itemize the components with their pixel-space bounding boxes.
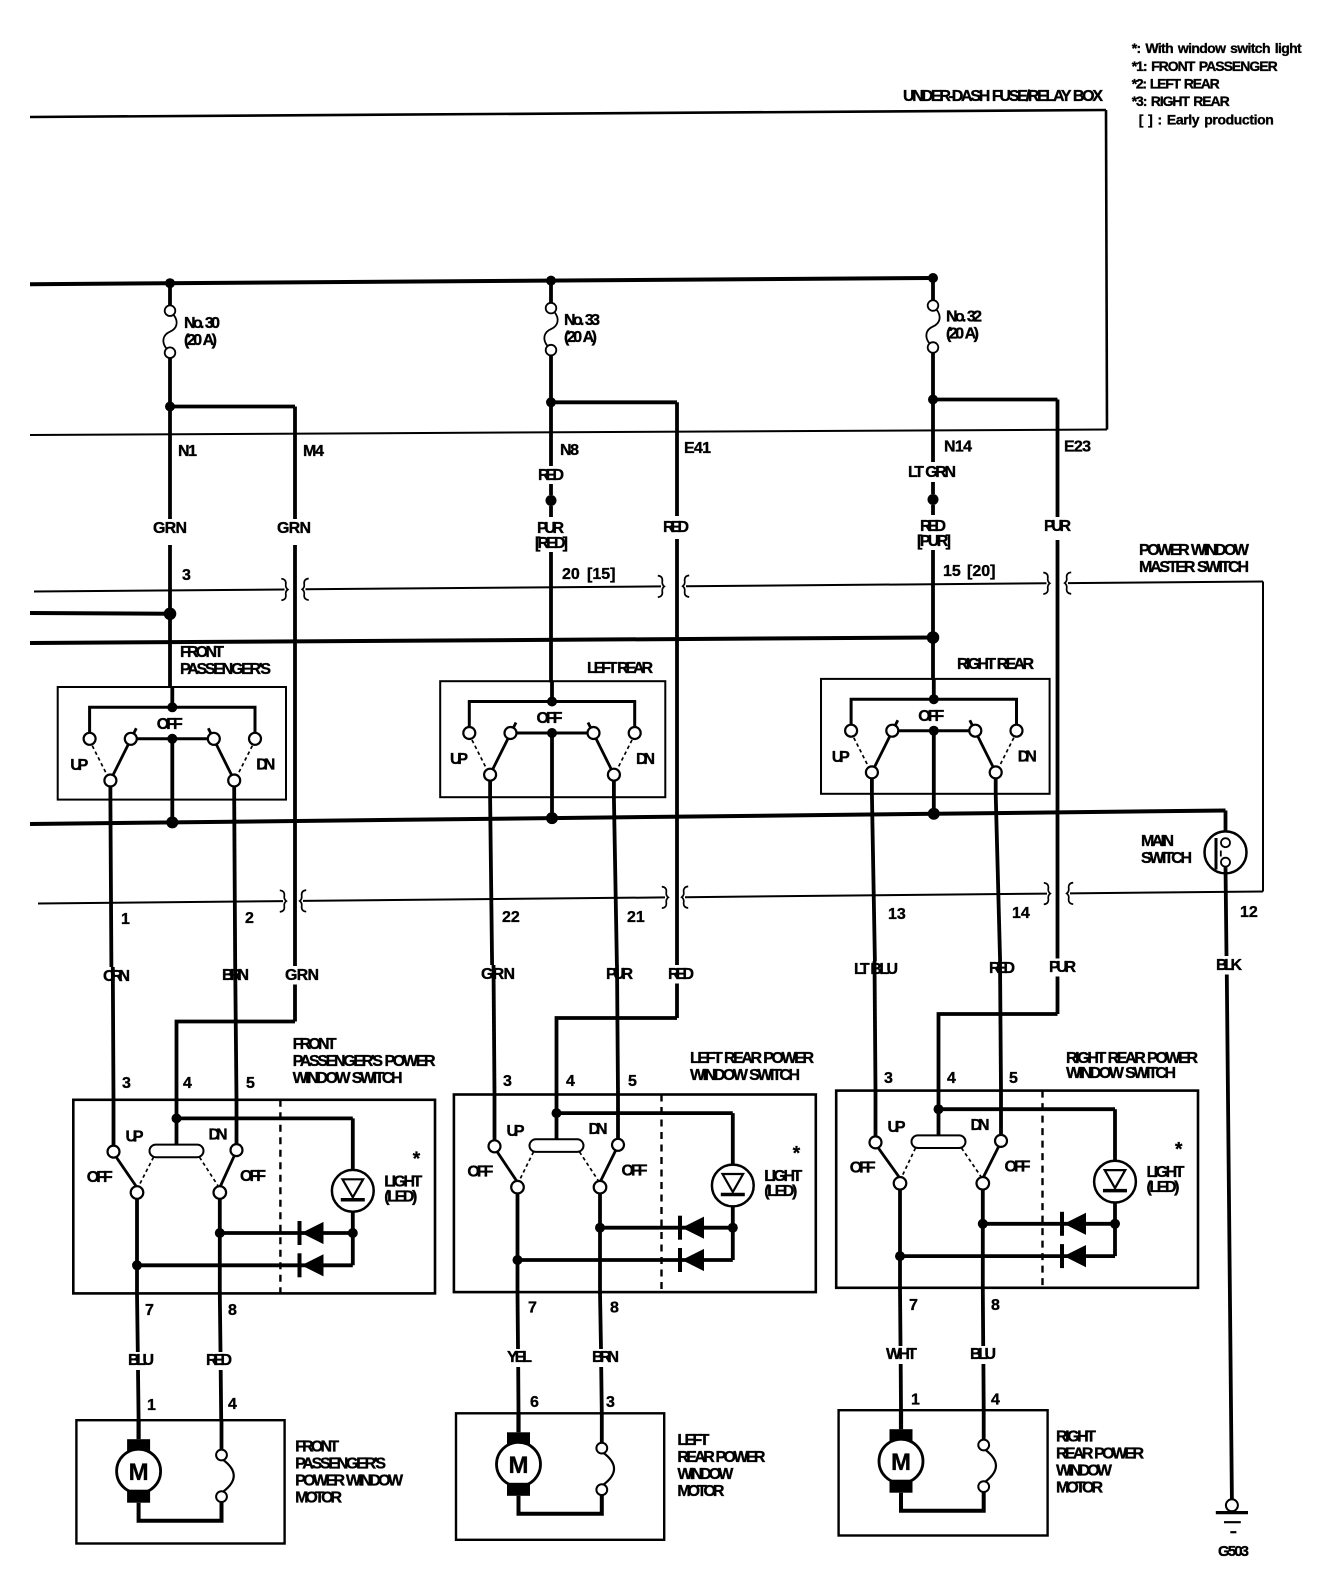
svg-text:(LED): (LED) <box>764 1183 797 1200</box>
node: pin 4 junction <box>552 1108 562 1118</box>
dashed link rocker-right arm <box>962 1148 981 1176</box>
wire N14 with LT GRN segment <box>931 400 935 463</box>
svg-text:UP: UP <box>888 1119 906 1136</box>
motor brush top <box>127 1439 150 1452</box>
wire pin 3 into switch <box>493 1095 497 1141</box>
under-dash fuse/relay box bottom edge <box>30 430 1107 436</box>
svg-text:3: 3 <box>503 1073 512 1090</box>
wire RED to pin 5 col3 <box>1000 961 1001 1091</box>
node: center wire joins master bus <box>546 812 558 824</box>
contact DN outer <box>1011 725 1023 737</box>
contact bar right <box>588 727 600 739</box>
wire pin 4 junction to rocker <box>555 1113 559 1139</box>
wire pin 4 junction to LED <box>557 1111 733 1115</box>
switch arm right <box>588 723 613 772</box>
wire from fuse No. 33 to branch junction <box>549 355 553 402</box>
svg-text:2: 2 <box>245 910 254 927</box>
wire pin 14 RED <box>996 794 1000 961</box>
node: bar center joins center wire <box>547 728 557 738</box>
contact DN (pin 5) <box>995 1135 1007 1147</box>
dashed link DN to arm <box>617 740 632 770</box>
switch common bar <box>137 737 208 740</box>
wire N8 from connector into left rear section <box>549 587 553 682</box>
breaker contact top <box>216 1450 227 1461</box>
center wire into section <box>932 679 936 699</box>
svg-text:POWER WINDOW: POWER WINDOW <box>1139 542 1250 559</box>
wire PUR to pin 5 col2 <box>617 965 618 1095</box>
motor brush top <box>890 1429 913 1442</box>
upper diode triangle <box>303 1223 324 1244</box>
center wire down to bus <box>170 739 174 823</box>
svg-text:OFF: OFF <box>918 708 944 725</box>
node: center junction <box>929 694 939 704</box>
wire from right arm down <box>994 778 998 793</box>
svg-text:[15]: [15] <box>587 566 615 583</box>
master switch top connector line segment 3 <box>686 583 1047 586</box>
svg-text:WHT: WHT <box>886 1346 917 1363</box>
wire from right arm down <box>612 781 616 798</box>
wire from main switch to pin 12 <box>1226 867 1227 957</box>
dashed link rocker-left arm <box>520 1152 534 1180</box>
node: bus A joins wire N1 <box>164 608 177 621</box>
wire from fuse No. 30 to branch junction <box>168 358 172 407</box>
svg-text:7: 7 <box>528 1300 537 1317</box>
master switch top connector line segment 1 <box>34 590 285 592</box>
svg-text:[PUR]: [PUR] <box>917 533 951 550</box>
center wire down to bus <box>550 733 554 818</box>
rocker knob <box>530 1139 584 1152</box>
switch arm left contact <box>104 775 116 787</box>
LED diode bar <box>341 1198 365 1202</box>
svg-text:GRN: GRN <box>481 966 515 983</box>
node: right arm junction <box>595 1223 605 1233</box>
lower diode triangle <box>683 1250 704 1271</box>
lower diode triangle <box>303 1255 324 1276</box>
svg-text:3: 3 <box>122 1075 131 1092</box>
svg-text:*: With window switch light: *: With window switch light <box>1132 40 1302 56</box>
lower diode cathode bar <box>298 1253 302 1277</box>
master switch right edge <box>1262 582 1264 892</box>
wire pin 8 out of switch <box>981 1224 985 1288</box>
under-dash fuse/relay box right edge <box>1106 110 1107 430</box>
contact UP outer <box>84 733 96 745</box>
contact DN (pin 5) <box>612 1139 624 1151</box>
wire pin 13 LT BLU <box>872 794 875 961</box>
master switch bottom connector line segment 2 <box>303 897 665 901</box>
wire pin 8 out of switch <box>598 1228 602 1292</box>
lower blocking diode line <box>137 1263 353 1267</box>
svg-text:8: 8 <box>991 1297 1000 1314</box>
svg-text:4: 4 <box>183 1075 192 1092</box>
master switch top connector line segment 2 <box>306 586 662 589</box>
wire pin 4 into switch <box>937 1091 941 1110</box>
wire pin 4 junction to rocker <box>937 1109 941 1135</box>
svg-text:DN: DN <box>209 1126 228 1143</box>
breaker arc <box>985 1450 996 1482</box>
svg-text:DN: DN <box>1018 749 1037 766</box>
switch arm right contact <box>990 766 1002 778</box>
svg-text:21: 21 <box>627 909 645 926</box>
upper diode triangle <box>683 1217 704 1238</box>
wire pin 5 into switch <box>235 1100 239 1144</box>
wire E23 PUR down <box>1056 400 1060 518</box>
LED lamp circle <box>332 1170 374 1212</box>
upper blocking diode line <box>983 1222 1115 1226</box>
node: left arm junction <box>513 1255 523 1265</box>
node: center wire joins master bus <box>166 816 178 828</box>
wire pin 5 into switch <box>616 1095 620 1139</box>
power window motor box <box>76 1420 284 1543</box>
switch arm left <box>873 720 898 769</box>
contact bar right <box>969 725 981 737</box>
svg-text:FRONT: FRONT <box>180 644 224 661</box>
master switch top connector line segment 4 <box>1068 582 1263 584</box>
wire LED to diode junctions <box>351 1212 355 1266</box>
motor brush bottom <box>890 1480 913 1493</box>
svg-text:No. 33: No. 33 <box>564 312 600 329</box>
node: bus B joins wire N14 <box>927 631 940 644</box>
contact UP (pin 3) <box>108 1146 120 1158</box>
svg-text:M: M <box>509 1452 529 1479</box>
bridge wire to UP and DN contacts <box>469 702 634 728</box>
svg-text:3: 3 <box>884 1070 893 1087</box>
wire right arm to upper junction <box>218 1199 222 1234</box>
svg-text:BRN: BRN <box>592 1349 619 1366</box>
wire from left arm down <box>488 781 492 798</box>
fuse No. 33 (20 A) <box>546 303 557 314</box>
wire BRN to pin 5 col1 <box>235 967 236 1100</box>
svg-text:RIGHT: RIGHT <box>1056 1429 1096 1446</box>
svg-text:OFF: OFF <box>157 716 183 733</box>
wire PUR jog to pin 4 col3 <box>939 1014 1058 1091</box>
svg-text:3: 3 <box>182 567 191 584</box>
wire GRN to pin 3 col2 <box>494 965 495 1095</box>
wire pin 7 out of switch <box>135 1265 139 1293</box>
switch arm left <box>112 728 137 777</box>
svg-text:UP: UP <box>450 751 468 768</box>
dashed link UP to arm <box>92 746 107 776</box>
wire from fuse No. 32 to branch junction <box>931 353 935 400</box>
svg-text:WINDOW: WINDOW <box>677 1466 734 1483</box>
svg-text:LEFT REAR POWER: LEFT REAR POWER <box>690 1050 814 1067</box>
switch arm left contact <box>866 766 878 778</box>
wire LED to diode junctions <box>731 1207 735 1261</box>
wire N1 GRN from bus A into front passenger's section <box>168 614 172 688</box>
breaker contact bottom <box>216 1491 227 1502</box>
svg-text:PUR: PUR <box>1049 959 1076 976</box>
contact UP outer <box>845 725 857 737</box>
switch arm left contact <box>484 769 496 781</box>
wire YEL col2 <box>516 1292 520 1349</box>
svg-text:(LED): (LED) <box>1147 1179 1180 1196</box>
contact UP (pin 3) <box>870 1136 882 1148</box>
switch common bar <box>517 732 588 735</box>
dashed link rocker-left arm <box>902 1148 916 1176</box>
main switch symbol <box>1205 831 1247 873</box>
svg-text:OFF: OFF <box>850 1160 876 1177</box>
wire into motor pin B <box>220 1420 224 1450</box>
left rear power window switch box <box>454 1095 816 1293</box>
power window motor box <box>456 1413 664 1540</box>
front passenger's power window switch box <box>73 1100 435 1294</box>
svg-text:LEFT REAR: LEFT REAR <box>587 660 653 677</box>
switch arm right <box>208 728 233 777</box>
svg-text:SWITCH: SWITCH <box>1141 850 1192 867</box>
wire N1 GRN from fuse box to master switch pin 3 <box>168 407 172 520</box>
motor bottom return wire <box>519 1495 602 1514</box>
svg-text:*2: LEFT REAR: *2: LEFT REAR <box>1132 76 1220 92</box>
LED lamp circle <box>1094 1161 1136 1203</box>
wire into motor pin A <box>137 1420 141 1439</box>
wire into motor pin A <box>516 1413 520 1432</box>
battery feed bus wire <box>30 278 931 284</box>
wire into motor pin A <box>899 1410 903 1429</box>
wire M4 GRN from fuse box down <box>293 407 297 520</box>
switch arm right (DN-OFF) <box>600 1148 617 1182</box>
switch arm right contact <box>608 769 620 781</box>
svg-text:UNDER-DASH FUSE/RELAY BOX: UNDER-DASH FUSE/RELAY BOX <box>903 88 1103 105</box>
svg-text:GRN: GRN <box>153 520 187 537</box>
wire BLU col3 <box>981 1288 985 1346</box>
contact DN outer <box>249 733 261 745</box>
dashed link DN to arm <box>237 746 252 776</box>
node: branch junction under fuse No. 30 <box>165 402 175 412</box>
svg-text:RED: RED <box>663 519 689 536</box>
contact bar right <box>208 733 220 745</box>
center wire into section <box>170 687 174 707</box>
svg-text:N14: N14 <box>944 439 972 456</box>
rocker knob <box>912 1135 966 1148</box>
svg-text:M: M <box>891 1449 911 1476</box>
node: bus tap for fuse No. 30 <box>165 278 175 288</box>
switch arm right contact <box>228 775 240 787</box>
svg-text:DN: DN <box>589 1121 608 1138</box>
lower diode cathode bar <box>1060 1244 1064 1268</box>
wire pin 7 out of switch <box>516 1260 520 1292</box>
svg-text:RED: RED <box>206 1352 232 1369</box>
contact bar left <box>886 725 898 737</box>
node: right arm junction <box>978 1219 988 1229</box>
motor brush bottom <box>127 1490 150 1503</box>
svg-text:REAR POWER: REAR POWER <box>677 1449 765 1466</box>
svg-text:No. 32: No. 32 <box>946 309 982 326</box>
dashed link UP to arm <box>472 740 487 770</box>
arm left contact <box>894 1177 907 1190</box>
svg-text:YEL: YEL <box>507 1349 532 1366</box>
master switch bottom connector line segment 1 <box>38 901 283 903</box>
svg-text:UP: UP <box>126 1128 144 1145</box>
fuse No. 32 (20 A) <box>928 300 939 311</box>
wire right arm to upper junction <box>981 1189 985 1224</box>
lower diode cathode bar <box>678 1248 682 1272</box>
LED diode bar <box>721 1193 745 1197</box>
wire left arm to lower junction <box>516 1193 520 1260</box>
dashed separator <box>1041 1091 1043 1288</box>
node: left arm junction <box>132 1260 142 1270</box>
breaker contact top <box>978 1440 989 1451</box>
svg-text:ORN: ORN <box>103 968 130 985</box>
wire from bus to fuse No. 32 <box>931 278 935 300</box>
wire pin 21 PUR <box>614 797 617 965</box>
svg-text:3: 3 <box>606 1394 615 1411</box>
upper diode cathode bar <box>298 1221 302 1245</box>
svg-text:REAR POWER: REAR POWER <box>1056 1446 1144 1463</box>
wire WHT col3 <box>898 1288 902 1346</box>
driver switch feed bus A <box>30 611 170 616</box>
arm right contact <box>594 1181 607 1194</box>
contact bar left <box>125 733 137 745</box>
svg-text:1: 1 <box>147 1397 156 1414</box>
svg-text:7: 7 <box>909 1297 918 1314</box>
node: left arm junction <box>895 1251 905 1261</box>
svg-text:MOTOR: MOTOR <box>1056 1480 1103 1497</box>
svg-text:*: * <box>1175 1140 1183 1161</box>
svg-text:M: M <box>129 1459 149 1486</box>
svg-text:PASSENGER'S: PASSENGER'S <box>295 1456 386 1473</box>
motor bottom return wire <box>139 1502 222 1521</box>
dashed separator <box>279 1100 281 1294</box>
wire pin 5 into switch <box>999 1091 1003 1135</box>
svg-text:OFF: OFF <box>537 710 563 727</box>
svg-text:*3: RIGHT REAR: *3: RIGHT REAR <box>1132 93 1230 109</box>
svg-text:*: * <box>413 1149 421 1170</box>
svg-text:5: 5 <box>628 1073 637 1090</box>
motor bottom return wire <box>901 1492 984 1511</box>
node: LED-diode junction <box>1110 1219 1120 1229</box>
power window motor box <box>839 1410 1048 1535</box>
upper blocking diode line <box>220 1231 353 1235</box>
wire left arm to lower junction <box>135 1199 139 1266</box>
center wire down to bus <box>932 731 936 814</box>
svg-text:BLK: BLK <box>1216 957 1242 974</box>
wire into motor pin B <box>600 1413 604 1443</box>
wire pin 4 junction to rocker <box>175 1118 179 1144</box>
svg-text:M4: M4 <box>303 443 324 460</box>
LED diode triangle <box>723 1174 744 1192</box>
svg-text:4: 4 <box>947 1070 956 1087</box>
svg-text:12: 12 <box>1240 904 1258 921</box>
switch arm right (DN-OFF) <box>220 1153 236 1187</box>
rocker knob <box>150 1145 204 1158</box>
svg-text:MOTOR: MOTOR <box>295 1490 342 1507</box>
svg-text:OFF: OFF <box>1005 1159 1031 1176</box>
wire from left arm down <box>109 787 113 800</box>
lower diode triangle <box>1065 1246 1086 1267</box>
svg-text:14: 14 <box>1012 905 1030 922</box>
wire branch to right connector pin <box>933 398 1058 402</box>
svg-text:No. 30: No. 30 <box>184 315 220 332</box>
driver switch feed bus B <box>30 638 933 644</box>
svg-text:(20 A): (20 A) <box>184 332 217 349</box>
node: center wire joins master bus <box>928 808 940 820</box>
svg-text:WINDOW SWITCH: WINDOW SWITCH <box>690 1067 800 1084</box>
svg-text:LEFT: LEFT <box>677 1432 709 1449</box>
svg-text:(20 A): (20 A) <box>946 326 979 343</box>
switch section box: <box>440 681 665 797</box>
dashed link rocker-right arm <box>200 1157 218 1185</box>
wire pin 22 GRN <box>490 797 492 965</box>
wire pin 4 into switch <box>175 1100 179 1119</box>
dashed link rocker-left arm <box>139 1157 154 1185</box>
svg-text:GRN: GRN <box>285 967 319 984</box>
dashed separator <box>660 1095 662 1293</box>
node: branch junction under fuse No. 32 <box>928 395 938 405</box>
node: center junction <box>167 702 177 712</box>
upper diode cathode bar <box>1060 1212 1064 1236</box>
node: bar center joins center wire <box>929 726 939 736</box>
node: center junction <box>547 697 557 707</box>
node: LED-diode junction <box>348 1228 358 1238</box>
wire pin 2 BRN <box>234 800 235 967</box>
svg-text:UP: UP <box>70 757 88 774</box>
wire branch to right connector pin <box>551 400 677 404</box>
breaker contact top <box>596 1443 607 1454</box>
svg-text:PASSENGER'S POWER: PASSENGER'S POWER <box>293 1053 436 1070</box>
master switch bottom connector line segment 3 <box>685 894 1047 898</box>
svg-text:(20 A): (20 A) <box>564 329 597 346</box>
svg-text:DN: DN <box>256 757 275 774</box>
arm right contact <box>214 1186 227 1199</box>
wire pin 4 junction to LED <box>939 1107 1116 1111</box>
motor brush top <box>507 1432 530 1445</box>
svg-text:[RED]: [RED] <box>535 535 568 552</box>
wire from bus to fuse No. 30 <box>168 283 172 305</box>
svg-text:OFF: OFF <box>622 1163 648 1180</box>
arm left contact <box>511 1181 524 1194</box>
wire BLK pin 12 to ground <box>1227 975 1232 1500</box>
wire pin 7 out of switch <box>898 1256 902 1288</box>
wire pin 3 into switch <box>112 1100 116 1146</box>
contact UP outer <box>463 727 475 739</box>
upper blocking diode line <box>600 1226 733 1230</box>
wire from right arm down <box>232 787 236 800</box>
wire from bus to fuse No. 33 <box>549 281 553 303</box>
svg-text:[ ] : Early production: [ ] : Early production <box>1139 112 1274 128</box>
svg-text:5: 5 <box>246 1075 255 1092</box>
svg-text:N8: N8 <box>560 442 579 459</box>
bridge wire to UP and DN contacts <box>90 707 255 733</box>
svg-text:E41: E41 <box>684 440 711 457</box>
switch arm left <box>492 723 517 772</box>
wire BLU col1 <box>135 1293 140 1352</box>
node: bus tap for fuse No. 32 <box>928 273 938 283</box>
connector dot on wire N8 <box>546 495 557 506</box>
motor armature circle <box>879 1439 923 1483</box>
svg-text:13: 13 <box>888 906 906 923</box>
svg-text:PUR: PUR <box>1044 518 1071 535</box>
svg-text:RED: RED <box>668 966 694 983</box>
svg-text:E23: E23 <box>1064 439 1091 456</box>
svg-text:15: 15 <box>943 563 961 580</box>
svg-text:G503: G503 <box>1218 1543 1249 1560</box>
wire pin 4 into switch <box>555 1095 559 1114</box>
wire LED to diode junctions <box>1113 1203 1117 1257</box>
motor armature circle <box>497 1442 541 1486</box>
LED diode triangle <box>1105 1170 1126 1188</box>
svg-text:OFF: OFF <box>467 1164 493 1181</box>
svg-text:20: 20 <box>562 566 580 583</box>
svg-text:BLU: BLU <box>128 1352 154 1369</box>
svg-text:MAIN: MAIN <box>1141 833 1174 850</box>
wire pin 1 ORN <box>110 800 111 967</box>
node: LED-diode junction <box>728 1223 738 1233</box>
contact DN (pin 5) <box>231 1144 243 1156</box>
wire into motor pin B <box>982 1410 986 1440</box>
node: pin 4 junction <box>934 1104 944 1114</box>
svg-text:(LED): (LED) <box>384 1188 417 1205</box>
wire ORN to pin 3 col1 <box>111 967 115 1100</box>
contact UP (pin 3) <box>489 1140 501 1152</box>
